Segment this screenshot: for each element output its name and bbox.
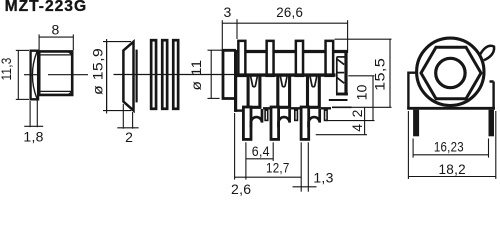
rear lug bottom segment 3 [321,107,331,109]
dim ø15,9 extension lines [103,41,131,43]
dim 2,6 + 12,7 chained line [234,176,301,178]
dim ø11 extension lines [208,49,223,51]
bottom dim extension 1,3 right [307,142,309,191]
thread line top [40,54,71,56]
center line left views [24,74,37,76]
right end spring contact lines [337,56,347,58]
dim 1,3 line [293,186,317,188]
dim 10 extension bottom [327,120,375,122]
pin 1 arch and rise [251,109,262,128]
rivet tab top right [480,46,494,61]
dim 18,2 line [408,176,495,178]
rear lug bottom segment 0 [235,109,243,111]
pin 1 [243,107,251,139]
pin 3 [301,107,309,139]
dim 15,5 line [389,39,391,107]
body plastic bottom line [236,73,335,76]
svg-text:12,7: 12,7 [266,160,290,176]
dim 2/4 line [364,107,366,120]
washer back rim line [136,50,138,103]
spring washer bar 3 [173,40,178,109]
front leg right [489,110,495,137]
rear pin stub 2 [295,110,298,120]
contact bump 1 [238,41,245,76]
front inner circle [436,58,465,87]
dim 8 line [39,36,73,38]
pin 3 arch and rise [309,109,320,128]
svg-text:ø 11: ø 11 [188,60,204,91]
lug 3 slot [310,77,317,87]
dim 1,8 line [24,125,43,127]
threaded sleeve (side view) [39,51,72,95]
thread line bottom [40,90,71,92]
svg-text:15,5: 15,5 [371,58,387,91]
svg-text:6,4: 6,4 [252,143,270,159]
front leg left [413,110,419,137]
dim 10 line [372,76,374,121]
svg-text:11,3: 11,3 [0,58,14,81]
jack body outline [236,52,346,112]
dim 11,3 line [17,50,19,99]
svg-text:26,6: 26,6 [276,4,303,20]
svg-text:2,6: 2,6 [231,181,251,197]
dim 8 extension lines [38,34,40,50]
solder lug 3 [308,75,320,108]
front view base bottom [407,107,495,110]
svg-text:MZT-223G: MZT-223G [5,0,88,15]
dim 26,6 extension right [347,20,349,53]
dim 2 extension lines [122,104,124,129]
lug 1 slot [251,77,258,87]
svg-text:2: 2 [349,109,365,117]
rear pin stub 1 [265,110,268,120]
svg-text:8: 8 [51,21,59,37]
dim ø15,9 line [106,39,108,114]
washer (side view) outer profile [123,42,133,111]
svg-text:1,3: 1,3 [313,169,333,185]
center line middle [114,74,237,76]
svg-text:ø 15,9: ø 15,9 [90,48,106,95]
dim 16,23 line [413,154,488,156]
right end bottom [336,93,348,96]
dim 11,3 extension lines [16,49,29,51]
dim 15,5 extension bottom [350,106,392,108]
dim 15,5 extension top [335,38,392,40]
svg-text:4: 4 [349,124,365,132]
front hex nut [421,47,481,99]
lug 2 slot [280,77,287,87]
contact bump 4 [326,41,334,76]
rear pin stub 3 [325,110,328,120]
right end lower contact bottom [329,99,348,101]
svg-text:18,2: 18,2 [438,161,466,177]
dim 18,2 extension lines [407,111,409,179]
dim 6,4 line [246,158,273,160]
nut chamfer arc [32,52,37,99]
pin 2 arch and rise [279,109,290,128]
rear lug bottom segment 2 [291,107,302,109]
contact bump 3 [296,41,303,76]
spring washer bar 1 [151,40,156,109]
svg-text:1,8: 1,8 [23,128,43,144]
dim ø11 line [210,50,212,98]
contact bump 2 [267,41,274,76]
sleeve chamfer bottom-right [68,91,72,95]
solder lug 1 [248,75,260,108]
bottom dim extension 12,7 / 1,3 left [300,142,302,191]
bottom dim extension 2,6 left [234,113,236,180]
nut (side view) [31,51,38,100]
dim 26,6 line [237,22,348,24]
dim 1,8 extension lines [29,101,31,127]
dim 3 line [222,22,237,24]
bottom dim extension pin1 left [245,142,247,179]
dim 4 extension bottom [316,134,367,136]
front outer circle [417,38,484,105]
pin 2 [271,107,279,139]
jack sleeve (main view) [223,50,236,98]
dim 3 / 26,6 shared extension [236,19,238,39]
svg-text:16,23: 16,23 [434,138,464,154]
dim 3 extension line left [221,20,223,49]
svg-text:10: 10 [353,84,369,100]
dim 2 line [117,127,138,129]
svg-text:2: 2 [125,129,133,145]
bottom dim extension 6,4 right [272,142,274,161]
svg-text:3: 3 [223,4,231,20]
dim 16,23 extension lines [412,139,414,158]
right end bottom step segment [332,106,352,108]
front view base [408,73,493,109]
spring washer bar 2 [162,40,167,109]
solder lug 2 [278,75,290,108]
sleeve chamfer top-right [68,52,72,56]
rear lug bottom segment 1 [263,107,272,109]
dim 10 extension top [348,75,374,77]
